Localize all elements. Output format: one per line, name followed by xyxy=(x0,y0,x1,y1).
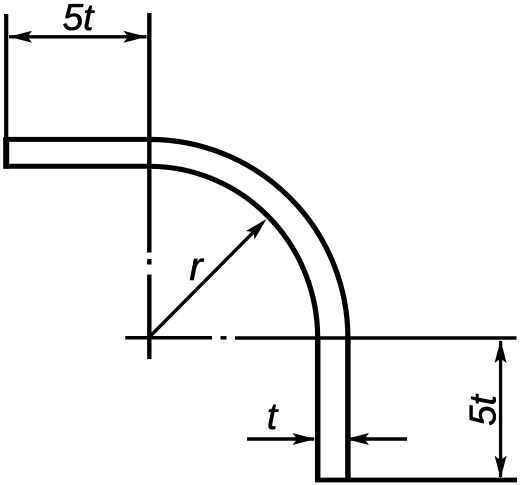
right 5t dimension bottom arrowhead xyxy=(495,456,507,479)
horizontal centerline solid part / extension to right 5t dimension xyxy=(235,336,517,340)
tube bottom end cap and extension line to right 5t dimension xyxy=(315,478,517,483)
svg-text:r: r xyxy=(189,245,204,289)
radius r arrowhead xyxy=(246,215,271,240)
svg-text:5t: 5t xyxy=(63,0,96,38)
tube inner surface, horizontal leg xyxy=(6,164,149,169)
tube outer surface, horizontal leg xyxy=(6,137,149,142)
tube left end cap xyxy=(3,137,9,169)
top 5t dimension right arrowhead xyxy=(124,31,147,43)
tube outer bend arc xyxy=(149,139,348,338)
tube inner surface, vertical leg xyxy=(315,338,321,479)
svg-text:t: t xyxy=(267,396,279,437)
left extension line of top 5t dimension xyxy=(4,14,8,137)
tube outer surface, vertical leg xyxy=(345,338,351,479)
svg-text:5t: 5t xyxy=(463,393,504,426)
horizontal centerline dash xyxy=(125,336,212,340)
t dimension right arrowhead xyxy=(346,433,369,445)
right 5t dimension top arrowhead xyxy=(495,340,507,363)
top 5t dimension left arrowhead xyxy=(9,31,32,43)
horizontal centerline dot xyxy=(221,336,227,340)
tube inner bend arc xyxy=(149,166,317,338)
vertical centerline dot xyxy=(147,259,151,265)
right 5t dimension line xyxy=(499,341,502,477)
t dimension line, left part xyxy=(247,437,314,441)
t dimension left arrowhead xyxy=(293,433,316,445)
top 5t dimension line xyxy=(9,35,147,38)
t dimension line, right part xyxy=(348,437,407,441)
radius leader line r xyxy=(149,223,263,338)
vertical tangent/extension line (solid part) xyxy=(147,13,151,253)
vertical centerline dash xyxy=(147,275,151,360)
